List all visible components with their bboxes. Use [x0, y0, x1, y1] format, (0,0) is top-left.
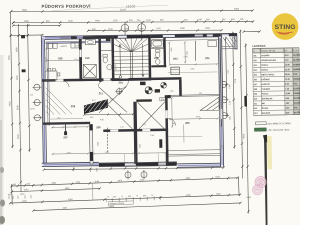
exterior bottom wall middle dark segment	[99, 162, 177, 167]
bottom-left scan blob 2	[0, 200, 5, 207]
svg-text:12,40: 12,40	[285, 63, 290, 66]
svg-text:1700: 1700	[105, 152, 109, 154]
interior wall 211/stair vertical	[111, 38, 114, 81]
svg-text:900: 900	[90, 117, 93, 119]
B3 labels	[22, 194, 221, 203]
svg-text:900: 900	[128, 196, 131, 198]
svg-text:2.00: 2.00	[150, 135, 154, 137]
svg-text:75: 75	[121, 196, 123, 198]
left top connector line	[10, 34, 44, 37]
exterior top wall band	[41, 33, 237, 39]
dimension line R4 long	[245, 43, 250, 213]
svg-text:BALKON: BALKON	[262, 112, 271, 115]
axis circle hall	[115, 87, 123, 95]
svg-text:51.1: 51.1	[92, 100, 96, 102]
svg-text:211: 211	[254, 103, 257, 105]
svg-text:202: 202	[154, 56, 159, 60]
svg-text:KOBEREC: KOBEREC	[293, 69, 300, 71]
axis circle left C	[33, 115, 42, 121]
bottom connector verticals	[11, 184, 14, 204]
svg-text:1,25: 1,25	[222, 145, 224, 149]
bottom dimension group (stronger scan warp)	[8, 176, 242, 213]
svg-text:m²: m²	[285, 49, 288, 52]
svg-text:POKOJ: POKOJ	[262, 93, 269, 95]
cross mark hall east	[137, 102, 165, 130]
svg-text:213: 213	[254, 113, 257, 115]
svg-text:1100: 1100	[75, 45, 79, 47]
dimension line B2	[11, 187, 101, 193]
dimension line R1	[224, 37, 228, 117]
stair walk line with arrow	[119, 44, 144, 78]
dim line left of room 205	[171, 97, 173, 128]
svg-text:209: 209	[58, 56, 63, 60]
wall stub mark lower	[22, 69, 26, 72]
T4 labels	[92, 28, 210, 31]
exterior bottom wall right blue segment	[177, 163, 224, 167]
svg-text:15,35: 15,35	[285, 69, 290, 71]
door arc corridor	[63, 81, 69, 87]
demolition hatch band	[83, 87, 134, 121]
svg-text:201: 201	[253, 55, 256, 57]
yellow highlight strip	[267, 136, 272, 169]
svg-text:905: 905	[230, 117, 232, 120]
washbasin counter 210	[85, 40, 95, 45]
svg-text:208: 208	[71, 104, 76, 108]
svg-text:204: 204	[205, 56, 210, 60]
wall x135 vertical	[133, 102, 137, 164]
extra tiny labels	[56, 47, 201, 149]
svg-text:4,20: 4,20	[285, 97, 289, 100]
svg-text:900: 900	[143, 195, 146, 197]
inner lining top-left wall	[45, 41, 111, 44]
dimension line L1	[9, 13, 14, 148]
svg-text:1,30: 1,30	[229, 101, 231, 105]
svg-text:+40+ (vybourané zdivo): +40+ (vybourané zdivo)	[267, 128, 289, 131]
svg-text:18,20: 18,20	[285, 74, 290, 76]
room 204/205 boundary line	[168, 95, 220, 97]
svg-text:205: 205	[185, 121, 190, 125]
right black bar mark	[244, 96, 246, 107]
room 209 dim line	[46, 59, 80, 62]
door arc hall	[121, 80, 129, 88]
room 203 dim vertical	[168, 41, 170, 63]
svg-text:KOBEREC: KOBEREC	[293, 64, 300, 66]
svg-text:1205: 1205	[229, 85, 231, 89]
pen stroke vertical line	[264, 136, 268, 225]
svg-text:75: 75	[136, 196, 138, 198]
dimension line R2	[232, 32, 236, 149]
window jamb lines bottom	[125, 153, 166, 162]
table room 209	[45, 68, 60, 80]
room 204 thin line	[168, 71, 217, 74]
svg-text:900: 900	[110, 99, 113, 101]
wall stub below hall door	[136, 99, 152, 102]
door arc wc	[98, 81, 104, 87]
interior wall 209/210 vertical	[79, 39, 82, 81]
stair treads lower flights	[114, 56, 149, 75]
svg-text:212: 212	[254, 108, 257, 110]
exit dark box	[140, 82, 146, 86]
partition room 203/204	[194, 41, 196, 61]
legend table row cells	[253, 52, 304, 115]
bathroom divider 202	[151, 48, 163, 50]
hatch legend swatch 1 (airbloc masonry)	[255, 122, 266, 125]
svg-text:1970: 1970	[63, 46, 67, 48]
svg-text:75: 75	[151, 195, 153, 197]
interior dim line bottom room A	[93, 152, 135, 155]
svg-text:3020: 3020	[171, 48, 173, 52]
stair bottom wall	[114, 78, 148, 81]
svg-text:207: 207	[254, 84, 257, 86]
svg-text:2600: 2600	[97, 142, 99, 146]
roof slope hatch corridor	[46, 87, 72, 114]
dimension line T4	[87, 29, 223, 32]
svg-text:209: 209	[254, 94, 257, 96]
STING logo red flourish	[277, 32, 293, 34]
closet wall x65 room 206	[64, 123, 66, 135]
svg-text:CHODBA: CHODBA	[262, 88, 271, 91]
svg-text:207: 207	[63, 135, 68, 139]
dimension line T2	[12, 20, 254, 24]
cross mark hall west	[99, 86, 133, 129]
svg-text:10,45: 10,45	[285, 92, 290, 95]
shower 210	[83, 64, 96, 77]
dimension line B4	[32, 202, 241, 212]
legend table grid lines	[253, 48, 301, 116]
dimension line L2	[17, 24, 22, 192]
B1 labels	[13, 177, 221, 187]
svg-text:1,25: 1,25	[120, 126, 124, 128]
slope triangle room 205	[200, 97, 219, 110]
window micro chain	[106, 196, 160, 202]
room 206 interior dim line lower	[52, 152, 90, 155]
closet dashed axis x107	[106, 128, 108, 153]
svg-text:KUCHYŇ: KUCHYŇ	[262, 83, 271, 86]
window lines in top wall gaps	[60, 36, 70, 38]
inner face line top-right wall	[151, 40, 219, 41]
svg-text:206: 206	[254, 79, 257, 81]
knee wall line left	[47, 43, 50, 126]
stamp circle main	[255, 176, 267, 188]
legend table grid	[253, 48, 299, 53]
svg-text:DLAŽBA: DLAŽBA	[294, 102, 300, 105]
corridor dim line	[50, 118, 83, 121]
svg-text:KOBEREC: KOBEREC	[293, 79, 300, 81]
interior horizontal wall y79	[42, 77, 182, 98]
svg-text:208: 208	[254, 89, 257, 91]
hatch legend swatch 2 (new masonry)	[254, 128, 266, 131]
svg-text:DLAŽBA: DLAŽBA	[293, 58, 300, 61]
svg-text:15.5: 15.5	[57, 117, 61, 119]
top right box balcony	[222, 33, 237, 49]
svg-text:4,50: 4,50	[100, 119, 104, 121]
axis circle right B	[220, 97, 229, 103]
svg-text:KOUPELNA+WC: KOUPELNA+WC	[261, 59, 277, 62]
door stub wall x160	[159, 139, 162, 148]
svg-text:PVH: PVH	[161, 99, 166, 101]
svg-text:ŠATNA: ŠATNA	[262, 107, 269, 110]
room 205 dim horizontal	[169, 117, 219, 120]
axis circle right C	[220, 113, 229, 119]
svg-text:2110: 2110	[45, 58, 47, 62]
STING logo circle	[272, 13, 299, 40]
exterior left wall band	[41, 36, 46, 164]
svg-text:CHODBA: CHODBA	[261, 54, 270, 57]
axis circle right A	[219, 81, 228, 87]
svg-text:2330: 2330	[187, 51, 189, 55]
wall x90 vertical	[89, 124, 93, 164]
svg-text:203: 203	[253, 65, 256, 67]
svg-text:206: 206	[96, 125, 101, 129]
svg-text:POKOJ: POKOJ	[261, 70, 268, 72]
svg-text:zdivo AIRBLOC 15 dB(A): zdivo AIRBLOC 15 dB(A)	[267, 122, 291, 125]
svg-text:3500: 3500	[22, 10, 28, 12]
svg-text:75: 75	[107, 197, 109, 199]
bathroom 202 bottom wall	[151, 65, 166, 67]
dimension line T1	[10, 9, 254, 13]
svg-text:3.5: 3.5	[143, 124, 146, 126]
svg-text:210: 210	[85, 56, 90, 60]
left micro tick chain	[9, 195, 31, 199]
room 204 dim vertical	[184, 41, 186, 63]
svg-text:211: 211	[99, 91, 104, 95]
svg-text:205: 205	[254, 74, 257, 76]
exterior right wall band	[218, 34, 223, 167]
dimension line L3	[26, 24, 30, 152]
right wall window gap	[220, 109, 223, 119]
axis circle bottom B	[141, 170, 147, 179]
grey connector x93	[91, 183, 94, 200]
svg-text:12(?): 12(?)	[30, 108, 35, 110]
svg-text:x150: x150	[184, 56, 188, 58]
svg-text:PVC: PVC	[293, 83, 298, 85]
dark block near circles	[155, 89, 160, 92]
axis circle top B	[138, 22, 146, 41]
boxed note	[108, 201, 133, 205]
bottom-left scan blob 3	[0, 216, 5, 224]
right rotated label marks	[229, 85, 232, 120]
axis circle top A	[121, 23, 129, 41]
svg-text:11,30: 11,30	[285, 79, 290, 81]
svg-text:5,10: 5,10	[285, 60, 289, 62]
fixtures room 209 top	[47, 44, 52, 49]
bathtub 202	[152, 40, 164, 48]
stair fan winder top	[114, 38, 149, 52]
svg-text:3,60: 3,60	[286, 108, 290, 110]
svg-text:2170: 2170	[67, 152, 71, 154]
svg-text:PVC: PVC	[294, 107, 299, 109]
axis circle left A	[32, 84, 41, 90]
wall x166 vertical	[165, 96, 169, 165]
svg-text:KOUPELNA: KOUPELNA	[262, 97, 273, 100]
svg-text:4,90: 4,90	[286, 111, 290, 114]
bottom window lines	[125, 163, 136, 165]
wc 211 sink	[107, 64, 112, 70]
svg-text:9,15: 9,15	[285, 55, 289, 57]
stair center pole	[130, 52, 132, 81]
svg-text:OBÝV. POKOJ: OBÝV. POKOJ	[261, 73, 274, 76]
svg-text:11100: 11100	[120, 9, 127, 11]
interior dim line bottom room B	[138, 152, 167, 155]
svg-text:STING: STING	[275, 24, 296, 31]
svg-text:150: 150	[199, 93, 202, 95]
svg-text:202: 202	[253, 60, 256, 62]
svg-text:PVC: PVC	[293, 74, 298, 76]
hall bottom wall	[103, 129, 168, 133]
stairwell right wall	[148, 38, 151, 81]
svg-text:PŮDORYS PODKROVÍ: PŮDORYS PODKROVÍ	[41, 4, 91, 9]
T2 labels	[24, 19, 244, 23]
svg-text:345: 345	[172, 123, 175, 125]
closet room 204	[208, 40, 217, 46]
top wall dark segments	[71, 36, 77, 38]
bathroom 202 right wall	[163, 38, 166, 68]
bidet 202	[156, 59, 160, 65]
room 206 interior dim line upper	[51, 126, 89, 129]
wall stub mark upper	[21, 35, 25, 38]
svg-text:201: 201	[119, 80, 124, 84]
svg-text:2080: 2080	[140, 144, 142, 148]
interior tick marks below building	[73, 167, 97, 172]
svg-text:KOBEREC: KOBEREC	[294, 93, 300, 95]
svg-text:LOŽNICE: LOŽNICE	[261, 78, 270, 81]
axis circle bottom A	[125, 170, 131, 179]
dimension line B0	[43, 166, 225, 172]
small inline dims inside plan	[45, 55, 224, 155]
svg-text:7,10: 7,10	[285, 88, 289, 90]
survey point circle B	[161, 82, 167, 88]
short right top dimension line	[243, 30, 261, 32]
svg-text:900: 900	[113, 196, 116, 198]
axis circle left B	[33, 99, 42, 105]
dim line rooms 203/204	[169, 63, 219, 66]
dimension line B3	[9, 193, 241, 204]
room 205 inner thin lines	[183, 124, 185, 142]
wc 211 toilet	[103, 54, 108, 63]
svg-text:18x175: 18x175	[115, 64, 117, 70]
pen stroke wedge top	[263, 135, 267, 143]
svg-text:1,25: 1,25	[170, 91, 174, 93]
interior wall 210/211 vertical	[98, 39, 101, 82]
svg-text:1,75: 1,75	[74, 59, 78, 61]
svg-text:203: 203	[173, 57, 178, 61]
svg-text:2000: 2000	[234, 9, 240, 11]
svg-text:4,50: 4,50	[44, 48, 48, 50]
svg-text:DLAŽBA: DLAŽBA	[294, 87, 300, 90]
tiny labels under top wall	[60, 45, 78, 48]
wc divider	[101, 50, 111, 52]
corridor bottom wall left	[43, 122, 91, 125]
svg-text:POKOJ: POKOJ	[261, 65, 268, 67]
svg-text:LEGENDA: LEGENDA	[252, 44, 265, 48]
svg-text:DLAŽBA: DLAŽBA	[294, 111, 300, 114]
room205 inner bottom lines	[169, 150, 221, 156]
svg-text:8,25: 8,25	[285, 84, 289, 86]
svg-text:4310: 4310	[196, 116, 200, 118]
left edge scan shading	[0, 55, 4, 225]
scan wrinkle line	[52, 5, 168, 11]
exterior bottom wall left blue segment	[42, 162, 99, 166]
svg-text:2460: 2460	[190, 68, 194, 70]
svg-text:NÁZEV MÍSTN.: NÁZEV MÍSTN.	[262, 49, 276, 52]
dim line under band	[83, 113, 134, 116]
bottom-left scan blob 1	[0, 167, 4, 173]
dimension line R3	[239, 30, 244, 179]
svg-text:DLAŽBA: DLAŽBA	[294, 97, 300, 100]
svg-text:1,80: 1,80	[285, 103, 289, 105]
toilet 202	[155, 50, 160, 58]
svg-text:14600: 14600	[108, 206, 115, 208]
dimension line B1	[10, 177, 238, 188]
survey point circle A	[145, 87, 152, 94]
dimension line T3	[12, 24, 61, 27]
stamp circle lower	[252, 185, 262, 195]
small boxed label 1402	[160, 97, 167, 101]
bed room 203	[171, 67, 180, 75]
svg-text:210: 210	[254, 98, 257, 100]
